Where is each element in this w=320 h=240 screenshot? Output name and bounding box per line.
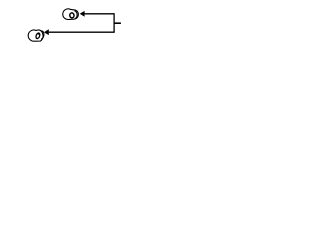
arrowhead pointing left into bottom transducer bbox=[44, 29, 49, 35]
wire: stub to the right (node tap) bbox=[114, 22, 121, 24]
wire: right vertical segment bbox=[113, 13, 115, 32]
arrowhead pointing left into top transducer bbox=[80, 11, 85, 17]
transducer symbol (bottom, earphone/speaker capsule glyph) bbox=[28, 30, 44, 41]
transducer symbol (top, earphone/speaker capsule glyph) bbox=[63, 9, 79, 20]
wire: top horizontal segment bbox=[84, 13, 114, 15]
wire: bottom horizontal segment bbox=[49, 31, 115, 33]
